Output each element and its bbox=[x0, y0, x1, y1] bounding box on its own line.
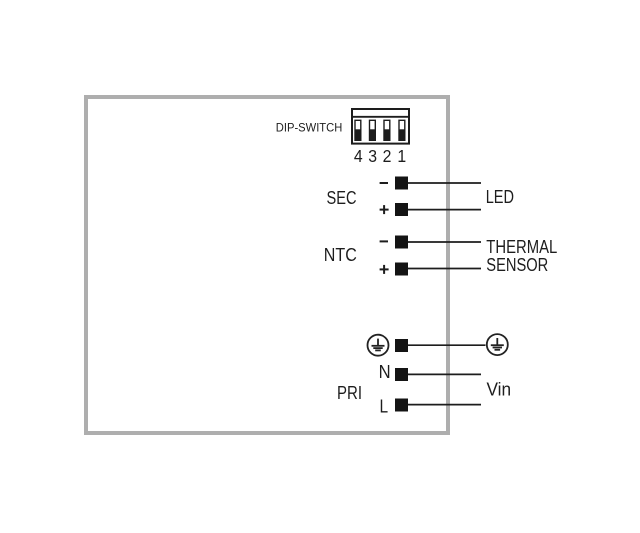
driver enclosure outline bbox=[86, 97, 448, 433]
svg-text:NTC: NTC bbox=[324, 245, 357, 265]
wire N to Vin bbox=[408, 373, 481, 375]
svg-text:N: N bbox=[379, 362, 391, 382]
dip-switch actuator 2 bbox=[384, 120, 390, 140]
wire SEC- to LED bbox=[408, 182, 481, 184]
svg-text:L: L bbox=[380, 397, 389, 417]
polarity minus (SEC-) bbox=[380, 182, 388, 184]
svg-text:Vin: Vin bbox=[487, 379, 512, 399]
wire NTC+ to thermal sensor bbox=[408, 268, 481, 270]
polarity minus (NTC-) bbox=[380, 240, 388, 242]
wire NTC- to thermal sensor bbox=[408, 241, 481, 243]
svg-text:LED: LED bbox=[486, 187, 514, 207]
protective earth symbol (internal) bbox=[368, 335, 389, 356]
terminal pad N bbox=[395, 368, 408, 381]
dip-switch S1 body bbox=[352, 109, 409, 144]
svg-text:PRI: PRI bbox=[337, 383, 362, 403]
terminal pad SEC+ bbox=[395, 203, 408, 216]
svg-text:SEC: SEC bbox=[327, 188, 357, 208]
protective earth symbol (external) bbox=[487, 334, 508, 355]
svg-text:3: 3 bbox=[368, 146, 377, 166]
terminal pad SEC- bbox=[395, 177, 408, 190]
dip-switch actuator 1 bbox=[399, 120, 405, 140]
terminal pad PE bbox=[395, 339, 408, 352]
svg-text:SENSOR: SENSOR bbox=[486, 255, 548, 275]
terminal pad NTC- bbox=[395, 236, 408, 249]
terminal pad L bbox=[395, 399, 408, 412]
wire PE to external earth bbox=[408, 344, 486, 346]
wire L to Vin bbox=[408, 404, 481, 406]
svg-text:1: 1 bbox=[397, 146, 406, 166]
svg-text:2: 2 bbox=[383, 146, 392, 166]
polarity plus (NTC+) bbox=[380, 265, 389, 274]
wire SEC+ to LED bbox=[408, 209, 481, 211]
svg-text:DIP-SWITCH: DIP-SWITCH bbox=[276, 121, 343, 135]
svg-text:THERMAL: THERMAL bbox=[486, 237, 557, 257]
svg-text:4: 4 bbox=[354, 146, 363, 166]
dip-switch actuator 4 bbox=[355, 120, 361, 140]
terminal pad NTC+ bbox=[395, 263, 408, 276]
dip-switch actuator 3 bbox=[370, 120, 376, 140]
polarity plus (SEC+) bbox=[380, 205, 389, 214]
